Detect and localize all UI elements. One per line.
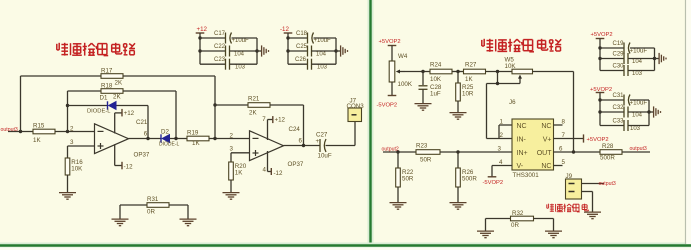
- wire W5 to feedback corner: [533, 71, 574, 73]
- svg-text:DIODE-L: DIODE-L: [159, 142, 180, 148]
- svg-text:2K: 2K: [113, 94, 121, 101]
- wire R17 branch vertical: [20, 76, 22, 132]
- ground bank1: [262, 45, 269, 56]
- wire C28 vertical: [422, 72, 424, 86]
- wire J9 pin2 down: [592, 192, 594, 212]
- capacitor C22: [226, 46, 230, 57]
- svg-text:NC: NC: [541, 123, 551, 130]
- svg-text:5: 5: [562, 159, 566, 166]
- pin name IN+ (3): [517, 150, 528, 157]
- wire J7 vertical: [354, 122, 356, 146]
- pin 7 (U2): [262, 116, 266, 123]
- wire feedback vertical: [573, 72, 575, 153]
- value 50R (R22): [402, 176, 414, 183]
- resistor R15: [33, 129, 55, 134]
- resistor R18: [101, 89, 123, 94]
- svg-text:+12: +12: [275, 117, 286, 124]
- svg-text:C19: C19: [613, 41, 625, 47]
- svg-text:10K: 10K: [430, 76, 442, 83]
- resistor R23: [416, 150, 440, 155]
- label C29: [613, 52, 625, 58]
- wire D1 row left: [68, 105, 108, 107]
- svg-text:-12: -12: [280, 26, 290, 33]
- svg-text:+12: +12: [124, 110, 135, 117]
- ground R32 left: [477, 231, 494, 238]
- junction D2/R18 node: [174, 137, 177, 140]
- wire D2 to R19: [170, 138, 187, 140]
- pin name NC (1): [517, 123, 527, 130]
- svg-text:R24: R24: [430, 62, 442, 69]
- wire J9 pin1: [582, 183, 605, 185]
- label R27: [465, 62, 477, 69]
- divider green vertical: [369, 0, 371, 246]
- svg-text:C26: C26: [295, 57, 307, 63]
- wire bank4 to ground: [649, 111, 653, 113]
- svg-text:1: 1: [500, 118, 504, 125]
- wire R31 left: [120, 204, 147, 206]
- label C25: [296, 44, 308, 50]
- wire R25 vertical top: [457, 72, 459, 84]
- ground bank2: [341, 45, 348, 56]
- junction R25 tap: [456, 70, 459, 73]
- capacitor C23: [226, 59, 230, 70]
- svg-text:+10uF: +10uF: [314, 38, 332, 44]
- junction bank4 right rail: [647, 110, 650, 113]
- wire bank2 row2 right: [312, 50, 337, 52]
- wire R19 to U2 pin2: [209, 138, 250, 140]
- svg-text:1K: 1K: [33, 137, 41, 144]
- svg-text:W4: W4: [398, 53, 408, 60]
- svg-text:NC: NC: [517, 123, 527, 130]
- junction bank2 rail r1: [286, 36, 289, 39]
- pin name V+ (7): [543, 136, 552, 143]
- power +5VOP2 (U3 V+): [584, 134, 609, 143]
- ground below C28: [415, 104, 432, 111]
- value THS3001 (U3): [513, 172, 540, 179]
- wire bank1 row2 left: [200, 50, 226, 52]
- pin name NC (5): [541, 163, 551, 170]
- power +5VOP2 (bank4): [590, 87, 612, 100]
- wire U3 pin4 down: [491, 166, 493, 177]
- junction C21/output: [146, 137, 149, 140]
- svg-text:1K: 1K: [192, 140, 200, 147]
- junction bank1 right rail: [255, 49, 258, 52]
- wire R15 to op-amp U1 pin2: [55, 131, 95, 133]
- label D1: [100, 95, 108, 102]
- svg-text:10K: 10K: [505, 63, 517, 70]
- wire R31 left vertical: [119, 205, 121, 219]
- capacitor C27: [316, 138, 327, 152]
- pin 6 (U3): [559, 145, 563, 152]
- svg-text:0R: 0R: [511, 222, 519, 229]
- capacitor C17: [226, 33, 232, 44]
- junction C28 tap: [421, 70, 424, 73]
- wire U3 pin2 row: [487, 138, 513, 140]
- port output3 (left input): [1, 127, 18, 133]
- resistor R16: [65, 158, 70, 175]
- label R32: [512, 210, 524, 217]
- capacitor C18: [308, 33, 314, 44]
- power +12 (bank1): [196, 26, 208, 38]
- junction bank4 r1: [598, 98, 601, 101]
- wire bank4 right rail: [648, 100, 650, 126]
- potentiometer W5: [512, 69, 533, 83]
- ground below R20: [223, 193, 240, 200]
- label R16: [71, 159, 83, 166]
- svg-text:OP37: OP37: [288, 161, 304, 168]
- pin name V- (4): [517, 163, 524, 170]
- value 10K (R16): [71, 166, 83, 173]
- value 10R (R25): [462, 91, 474, 98]
- label C30: [613, 64, 625, 70]
- value 0R (R32): [511, 222, 519, 229]
- label OP37 (U1): [134, 152, 150, 159]
- label D2: [161, 129, 169, 136]
- junction at R17 branch: [19, 130, 22, 133]
- junction feedback node: [213, 137, 216, 140]
- wire bank4 row1 right: [630, 99, 649, 101]
- svg-text:-12: -12: [274, 170, 284, 177]
- svg-text:10uF: 10uF: [318, 153, 332, 160]
- wire bank3 row3 left: [600, 70, 624, 72]
- ground below R25: [450, 113, 467, 120]
- junction bank3 r1: [598, 46, 601, 49]
- label J7: [350, 97, 357, 104]
- value 500R (R28): [600, 155, 615, 162]
- resistor R25: [456, 83, 461, 101]
- wire C27 to J7: [326, 145, 356, 147]
- capacitor C33: [624, 120, 628, 131]
- wire bank2 row2 left: [288, 50, 308, 52]
- port output3 (J9): [599, 181, 616, 187]
- wire bank1 left rail: [199, 38, 201, 64]
- svg-text:103: 103: [632, 71, 643, 77]
- wire U1 output row: [129, 138, 162, 140]
- pin 3 (U3): [498, 145, 502, 152]
- wire W4 wiper row: [405, 71, 430, 73]
- svg-text:C31: C31: [613, 93, 625, 99]
- resistor R17: [101, 74, 123, 79]
- svg-text:4: 4: [263, 166, 267, 173]
- svg-text:C18: C18: [296, 31, 308, 37]
- wire R26 vertical top: [457, 152, 459, 168]
- wire R32 left vertical: [485, 219, 487, 231]
- svg-text:4: 4: [499, 159, 503, 166]
- wire bank2 row1 left: [288, 37, 308, 39]
- svg-text:-5VOP2: -5VOP2: [377, 103, 398, 109]
- value 2K (R21): [249, 110, 257, 117]
- wire R32 left: [486, 218, 511, 220]
- wire bank3 row2 right: [628, 58, 655, 60]
- wire R24-R27: [452, 71, 464, 73]
- resistor R27: [464, 69, 486, 74]
- power +5VOP2 (W4 top): [379, 39, 401, 61]
- wire U1 pin3 row: [68, 145, 95, 147]
- pin 3 (U2): [230, 145, 234, 152]
- svg-text:103: 103: [317, 65, 328, 71]
- ground below R16: [59, 193, 76, 200]
- svg-text:6: 6: [144, 131, 148, 138]
- label C26: [295, 57, 307, 63]
- wire bank3 row2 left: [600, 58, 624, 60]
- svg-text:50R: 50R: [420, 157, 432, 164]
- capacitor C32: [624, 107, 628, 118]
- label R31: [147, 196, 159, 203]
- label C21: [136, 119, 148, 126]
- potentiometer W4: [389, 61, 405, 82]
- diode D1: [108, 101, 117, 109]
- label R20: [235, 163, 247, 170]
- value 1K (R15): [33, 137, 41, 144]
- pin 4 (U3): [499, 159, 503, 166]
- ground below J9: [584, 212, 601, 219]
- value +10uF (C18): [314, 38, 332, 44]
- svg-text:1K: 1K: [465, 76, 473, 83]
- divider halo vertical: [368, 0, 374, 246]
- label R21: [248, 95, 260, 102]
- wire input row left: [383, 151, 416, 153]
- svg-text:104: 104: [632, 112, 643, 118]
- wire U2 output row: [284, 145, 320, 147]
- pin 7 (U3): [562, 132, 566, 139]
- wire bank2 row3 right: [312, 63, 337, 65]
- value 500R (R26): [462, 176, 477, 183]
- value 100K (W4): [398, 81, 413, 88]
- power -5VOP2 (U3 V-): [483, 177, 504, 186]
- svg-text:R23: R23: [416, 142, 428, 149]
- capacitor C28: [419, 86, 428, 90]
- label W4: [398, 53, 408, 60]
- value DIODE-L (D1): [87, 109, 111, 115]
- ground bank4: [654, 106, 661, 117]
- svg-text:+5VOP2: +5VOP2: [379, 39, 401, 45]
- label C18: [296, 31, 308, 37]
- capacitor C29: [624, 53, 628, 64]
- label R18: [101, 82, 113, 89]
- power +5VOP2 (bank3): [591, 32, 613, 48]
- svg-text:10R: 10R: [462, 91, 474, 98]
- pin name IN- (2): [517, 136, 527, 143]
- wire R22 vertical top: [397, 152, 399, 168]
- wire U3 pin7 row: [554, 138, 584, 140]
- ground R31 left: [112, 219, 129, 226]
- wire C21 branch vertical: [147, 106, 149, 139]
- svg-text:J9: J9: [566, 173, 573, 180]
- svg-text:0R: 0R: [147, 209, 155, 216]
- svg-text:THS3001: THS3001: [513, 172, 540, 179]
- svg-text:IN-: IN-: [517, 136, 527, 143]
- node A junction: [66, 130, 69, 133]
- wire R21 row left: [215, 104, 248, 106]
- connector J9: [566, 179, 582, 199]
- resistor R20: [229, 162, 234, 180]
- wire bank2 right rail: [335, 38, 337, 64]
- svg-text:3: 3: [498, 145, 502, 152]
- svg-text:3: 3: [230, 145, 234, 152]
- value +10uF (C17): [232, 38, 250, 44]
- value 1K (R27): [465, 76, 473, 83]
- value 104 (C25): [316, 52, 327, 58]
- svg-text:6: 6: [299, 138, 303, 145]
- svg-text:C29: C29: [613, 52, 625, 58]
- wire bank4 row2 left: [600, 111, 624, 113]
- right faint border: [686, 0, 691, 244]
- pin 2 (U1): [70, 125, 74, 132]
- wire R20 to ground: [230, 180, 232, 192]
- wire R31 right vertical: [187, 205, 189, 219]
- wire bank2 row1 right: [314, 37, 337, 39]
- junction bank3 right rail: [653, 57, 656, 60]
- label W5: [505, 57, 515, 64]
- junction U2 output: [302, 144, 305, 147]
- wire bank3 row1 right: [630, 47, 655, 49]
- op-amp U1 (OP37): [95, 124, 129, 154]
- bottom halo: [0, 243, 691, 249]
- wire R32 right vertical: [553, 219, 555, 231]
- svg-text:2: 2: [230, 133, 234, 140]
- junction R22 tap: [396, 150, 399, 153]
- wire bank1 row1 right: [232, 37, 258, 39]
- label C32: [613, 105, 625, 111]
- svg-text:-5VOP2: -5VOP2: [483, 180, 504, 186]
- svg-text:100K: 100K: [398, 81, 413, 88]
- svg-text:3: 3: [70, 139, 74, 146]
- wire bank2 row3 left: [288, 63, 308, 65]
- svg-text:500R: 500R: [462, 176, 477, 183]
- ground below R22: [390, 203, 407, 210]
- power -12 (bank2): [280, 26, 292, 38]
- pin 1 (U3): [500, 118, 504, 125]
- title 固定增益电路 (fixed gain circuit): [482, 39, 561, 52]
- ground bank3: [659, 53, 666, 64]
- label C17: [214, 31, 226, 37]
- wire R27 to W5: [486, 71, 513, 73]
- junction bank2 right rail: [334, 49, 337, 52]
- label C19: [613, 41, 625, 47]
- svg-text:6: 6: [559, 145, 563, 152]
- pin 2 (U2): [230, 133, 234, 140]
- svg-text:V+: V+: [543, 136, 552, 143]
- svg-text:D2: D2: [161, 129, 169, 136]
- svg-text:104: 104: [234, 52, 245, 58]
- pin 3 (U1): [70, 139, 74, 146]
- svg-text:+5VOP2: +5VOP2: [591, 32, 613, 38]
- svg-text:2: 2: [500, 132, 504, 139]
- junction bank2 rail r2: [286, 49, 289, 52]
- capacitor C30: [624, 65, 628, 76]
- junction bank1 rail r1: [198, 36, 201, 39]
- resistor R31: [147, 203, 169, 208]
- svg-text:C23: C23: [214, 57, 226, 63]
- port output3 (right): [630, 146, 647, 152]
- svg-text:C24: C24: [289, 126, 301, 133]
- svg-text:R27: R27: [465, 62, 477, 69]
- value CON3 (J7): [347, 103, 365, 110]
- svg-text:+: +: [316, 138, 320, 145]
- wire bank3 to ground: [655, 58, 659, 60]
- label C31: [613, 93, 625, 99]
- wire U3 pin1 stub: [499, 124, 513, 126]
- value +10uF (C19): [630, 48, 648, 55]
- capacitor C19: [624, 43, 630, 54]
- resistor R21: [248, 103, 270, 108]
- svg-text:NC: NC: [541, 163, 551, 170]
- wire bank2 left rail: [287, 38, 289, 64]
- wire bank4 row1 left: [600, 99, 624, 101]
- value +10uF (C31): [630, 100, 648, 107]
- wire R17 top left: [21, 75, 102, 77]
- svg-text:7: 7: [562, 132, 566, 139]
- label R15: [33, 122, 45, 129]
- wire output3 row: [8, 131, 33, 133]
- wire bank4 row3 left: [600, 125, 624, 127]
- svg-text:10K: 10K: [71, 166, 83, 173]
- wire U3 pin8 stub: [554, 124, 563, 126]
- svg-text:104: 104: [316, 52, 327, 58]
- svg-text:C32: C32: [613, 105, 625, 111]
- power -5VOP2 (W4 bottom): [377, 82, 398, 109]
- title 峰值检波电路 (peak detection circuit): [57, 43, 135, 56]
- svg-text:DIODE-L: DIODE-L: [87, 109, 111, 115]
- svg-text:-12: -12: [124, 164, 134, 171]
- wire U2 pin3 row: [231, 152, 250, 154]
- bottom white strip: [0, 247, 691, 250]
- wire node A vertical: [67, 91, 69, 132]
- junction feedback tap: [496, 70, 499, 73]
- wire bank1 row1 left: [200, 37, 226, 39]
- label C24: [289, 126, 301, 133]
- junction IN- net: [496, 82, 499, 85]
- svg-text:output3: output3: [630, 146, 647, 152]
- svg-text:OUT: OUT: [537, 150, 553, 157]
- diode D2: [161, 134, 170, 142]
- junction bank1 rail r2: [198, 49, 201, 52]
- ground R32 right: [545, 231, 562, 238]
- junction feedback/out: [572, 150, 575, 153]
- svg-text:C22: C22: [214, 44, 226, 50]
- pin 8 (U3): [562, 118, 566, 125]
- power -12 (U1 V-): [115, 144, 133, 170]
- value 104 (C29): [632, 59, 643, 65]
- svg-text:R18: R18: [101, 82, 113, 89]
- value 103 (C23): [235, 65, 246, 71]
- wire bank2 to ground: [336, 50, 340, 52]
- wire U2 pin3 to R20: [230, 153, 232, 162]
- label R24: [430, 62, 442, 69]
- resistor R26: [456, 168, 461, 187]
- wire input row right: [440, 151, 513, 153]
- label J9: [566, 173, 573, 180]
- pin 6 (U1): [144, 131, 148, 138]
- wire R17 to node: [123, 75, 215, 77]
- pin 5 (U3): [562, 159, 566, 166]
- label R22: [402, 169, 414, 176]
- svg-text:C30: C30: [613, 64, 625, 70]
- wire bank1 right rail: [256, 38, 258, 64]
- svg-text:C25: C25: [296, 44, 308, 50]
- resistor R24: [430, 69, 452, 74]
- ground below R26: [450, 203, 467, 210]
- svg-text:C21: C21: [136, 119, 148, 126]
- value 104 (C22): [234, 52, 245, 58]
- power +12 (U2 V+): [268, 116, 286, 140]
- label OP37 (U2): [288, 161, 304, 168]
- svg-text:50R: 50R: [402, 176, 414, 183]
- wire bank1 row3 left: [200, 63, 226, 65]
- bottom green line: [0, 244, 691, 246]
- svg-text:R19: R19: [187, 129, 199, 136]
- pin 2 (U3): [500, 132, 504, 139]
